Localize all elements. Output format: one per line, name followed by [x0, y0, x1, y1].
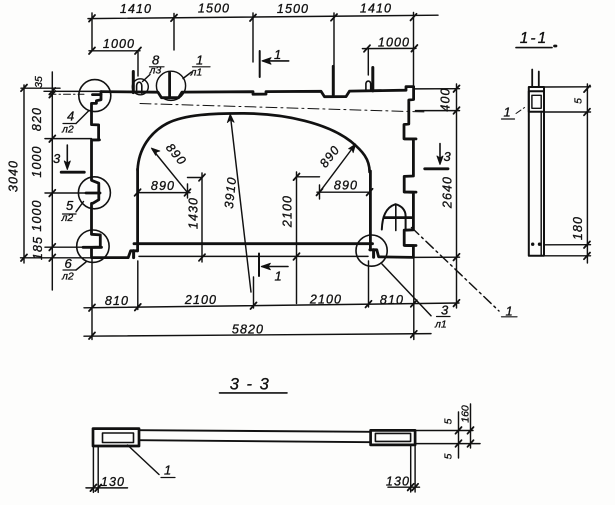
1-1 rebar bars top [531, 70, 533, 88]
arch curve [138, 113, 370, 172]
connector to 1430 dim [188, 177, 203, 179]
ext 400 boundary [416, 110, 460, 112]
title 3-3 [230, 376, 271, 394]
opening left jamb [136, 169, 139, 251]
right chain line [456, 84, 458, 308]
dome void near right edge [382, 204, 406, 229]
ext left edge bottom [91, 258, 93, 340]
connector y=242.5 [45, 246, 83, 248]
connector top y=90 [21, 87, 60, 89]
detail circle 5 (mid-left) [78, 177, 110, 209]
detail circle 6 (bottom-left) [77, 230, 109, 262]
dim text 1500 (2) [277, 2, 309, 16]
svg-text:5: 5 [443, 453, 455, 459]
extension line x=253 [252, 13, 254, 62]
3-3 right ext top [415, 430, 473, 432]
section flag 3 (left) [53, 151, 61, 166]
label д3 [149, 65, 162, 77]
dim text 2640 [441, 176, 455, 209]
dim text 185 [31, 236, 45, 260]
dimension 1000 right row2 [362, 47, 416, 49]
svg-text:3: 3 [441, 303, 449, 318]
svg-text:1000: 1000 [30, 145, 44, 177]
svg-text:л1: л1 [434, 319, 447, 331]
1-1 rebar dots bottom [531, 243, 534, 246]
detail circle д1 (big, top) [156, 71, 185, 100]
ticks left chains [21, 85, 55, 261]
3-3 right ext bottom [415, 443, 480, 445]
extension line x=174 [173, 14, 175, 51]
leader 3/д1 (bottom right) [382, 264, 431, 316]
svg-text:л2: л2 [61, 124, 74, 136]
ext bottom to chain [414, 256, 460, 258]
key dash left bottom [83, 246, 102, 249]
dim 890 radius right (diagonal) [320, 146, 355, 193]
3-3 left 130 dim line [86, 487, 128, 489]
arc center cross left [187, 184, 189, 198]
arc center cross right [319, 185, 321, 199]
svg-text:1: 1 [275, 269, 282, 284]
svg-text:5820: 5820 [232, 323, 264, 337]
lifting loop bar left [132, 72, 135, 93]
leader 4 [76, 111, 89, 124]
sill end tick left [132, 251, 135, 258]
lifting loop bar right [371, 68, 374, 91]
dim 1430 vertical [201, 173, 203, 262]
svg-text:1: 1 [274, 47, 281, 62]
svg-text:1000: 1000 [103, 37, 135, 51]
svg-text:4: 4 [67, 109, 74, 124]
label 8 with underline [152, 53, 160, 68]
label д2 (6) [61, 271, 74, 283]
leader д3 [143, 75, 151, 82]
label 4 with underline [67, 109, 74, 124]
svg-text:2100: 2100 [281, 195, 295, 228]
svg-text:5: 5 [66, 198, 74, 213]
3-3 left box outer [93, 429, 139, 446]
1-1 label 1 [504, 105, 511, 120]
dimension 1000 left row2 [89, 50, 140, 52]
dim 890 horizontal right [317, 191, 370, 193]
svg-text:л2: л2 [61, 271, 74, 283]
1-1 ext box bottom [545, 111, 591, 113]
top dimension line row1 [88, 15, 438, 18]
3-3 right 130 ext lines [410, 445, 412, 492]
dim text 35 [33, 76, 45, 88]
3-3 slab bottom line [140, 440, 371, 442]
dim text 1000 (2) [30, 199, 44, 231]
3-3 right box outer [371, 430, 416, 445]
svg-text:2100: 2100 [309, 292, 342, 306]
dim 890 horizontal left [138, 192, 190, 194]
detail circle 3 (bottom-right) [356, 235, 387, 266]
svg-text:2100: 2100 [184, 293, 217, 307]
left outer chain line [23, 85, 25, 263]
3-3 dim 160 [460, 405, 472, 423]
1-1 slab outline [529, 87, 544, 256]
label 5 with underline [66, 198, 74, 213]
3-3 right 130 dim line [388, 486, 420, 488]
keyway mouth dashes right edge [405, 139, 416, 246]
dim text 1410 [120, 2, 152, 16]
1-1 right chain [586, 84, 588, 263]
svg-text:890: 890 [334, 179, 358, 193]
3-3 leader 1 [128, 445, 160, 475]
dim text 1410 (2) [360, 1, 392, 15]
ext center [253, 277, 255, 308]
3-3 right box inner [375, 433, 410, 441]
opening right jamb [369, 171, 372, 250]
1-1 leader dash-dot [516, 106, 527, 114]
svg-text:1: 1 [504, 105, 511, 120]
svg-text:820: 820 [30, 107, 44, 131]
label 1 with underline (callout д1) [196, 53, 203, 68]
svg-text:810: 810 [380, 293, 404, 307]
ext top edge to chain [414, 88, 460, 90]
label д2 (5) [61, 212, 74, 224]
dim text 820 [30, 107, 44, 131]
1-1 dim 5 [573, 98, 585, 104]
svg-text:2640: 2640 [441, 176, 455, 209]
notch center bar 1 [168, 73, 171, 98]
dome centerline [395, 204, 397, 230]
dim text 1500 [198, 2, 230, 16]
lifting loop wire left [137, 82, 142, 93]
3-3 left 130 ext lines [92, 446, 94, 492]
dim 2100 vertical [296, 172, 298, 304]
svg-text:890: 890 [163, 141, 189, 169]
dome crossbar [384, 216, 412, 219]
svg-text:180: 180 [571, 216, 585, 240]
svg-text:185: 185 [31, 236, 45, 260]
dim 890 radius left (diagonal) [153, 150, 188, 193]
svg-text:130: 130 [101, 475, 125, 489]
extension line x=413.5 [413, 13, 415, 88]
svg-text:130: 130 [386, 475, 410, 489]
ext opening left [137, 261, 139, 310]
label д1 [190, 67, 203, 79]
svg-text:1: 1 [164, 463, 171, 478]
connector y=93.8 [44, 90, 101, 92]
key dash left mid [86, 192, 100, 195]
dim text 3040 [7, 160, 21, 192]
svg-text:890: 890 [151, 179, 175, 193]
3-3 slab top line [140, 430, 371, 432]
panel outline left part [92, 92, 138, 258]
lower inner line under opening [139, 255, 368, 257]
connector to 2100 dim [297, 176, 320, 178]
sill line (thick) [134, 242, 373, 245]
connector y=190 [45, 192, 86, 194]
radius leader 3910 [231, 117, 252, 293]
bottom dim row2 line 5820 [84, 334, 431, 337]
svg-text:3: 3 [444, 149, 452, 164]
left inner chain line [51, 72, 53, 290]
label д2 [61, 124, 74, 136]
svg-text:5: 5 [443, 418, 455, 424]
connector bottom y=257.6 [21, 257, 92, 259]
svg-text:810: 810 [105, 294, 129, 308]
ext right edge bottom [413, 258, 415, 340]
1-1 keyway box inner [532, 95, 541, 108]
ext opening right [368, 261, 370, 307]
panel outline [101, 87, 414, 258]
leader 5 [76, 202, 84, 212]
section flag 3 (right) [444, 149, 452, 164]
svg-text:1410: 1410 [360, 1, 392, 15]
1-1 ext top [545, 86, 591, 88]
svg-text:400: 400 [439, 87, 453, 111]
svg-text:1410: 1410 [120, 2, 152, 16]
section flag 1 (top) [259, 51, 261, 77]
corner key axis dash-dot [49, 93, 84, 95]
sill end tick right [372, 250, 375, 257]
dim text 400 [439, 87, 453, 111]
leader д1 [183, 72, 192, 79]
svg-text:3 - 3: 3 - 3 [230, 376, 271, 394]
3-3 dim 5 bottom [443, 453, 455, 459]
keyway mouth dash left edge [92, 139, 100, 142]
svg-text:1: 1 [196, 53, 203, 68]
detail circle (loop) [132, 79, 148, 95]
svg-text:3910: 3910 [222, 176, 239, 210]
svg-text:1500: 1500 [198, 2, 230, 16]
3-3 left box inner [103, 433, 134, 443]
svg-text:1000: 1000 [30, 199, 44, 231]
extension line x=334 [333, 13, 335, 95]
lifting loop wire right [366, 81, 371, 91]
notch center bar 2 [332, 66, 335, 95]
svg-text:5: 5 [573, 98, 585, 104]
svg-text:3040: 3040 [7, 160, 21, 192]
1-1 dim 180 [571, 216, 585, 240]
label 6 with underline [65, 256, 73, 271]
svg-text:160: 160 [460, 405, 472, 423]
axis dash-dot line [140, 104, 426, 113]
1-1 keyway box outer [529, 91, 544, 112]
svg-text:1500: 1500 [277, 2, 309, 16]
1-1 ext bottom [545, 244, 591, 246]
svg-text:1430: 1430 [187, 197, 201, 229]
svg-text:3: 3 [53, 151, 61, 166]
3-3 outer chain [470, 404, 472, 448]
svg-text:л2: л2 [61, 212, 74, 224]
leader 6 [76, 262, 86, 270]
svg-text:1000: 1000 [378, 35, 410, 49]
section flag 1 (bottom) [258, 254, 260, 277]
title 1-1 [520, 30, 548, 47]
extension line x=92 [91, 13, 93, 51]
bottom dim row1 line [84, 303, 459, 308]
svg-text:35: 35 [33, 76, 45, 88]
leader 1 (dash-dot, bottom right) [412, 228, 500, 312]
3-3 inner chain [458, 412, 460, 458]
detail circle 4 (top-left corner) [79, 80, 111, 112]
3-3 dim 5 top [443, 418, 455, 424]
1-1 inner face line [540, 112, 542, 256]
dim text 1000 [30, 145, 44, 177]
1-1 ticks [584, 86, 590, 260]
tick marks row1 [89, 14, 417, 22]
connector y=136 [45, 138, 92, 140]
corner key dash (thick) [93, 93, 102, 96]
svg-text:1-1: 1-1 [520, 30, 548, 47]
